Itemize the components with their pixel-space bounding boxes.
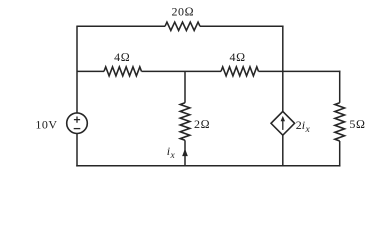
wire bottom (76, 165, 340, 167)
resistor 5ohm (335, 103, 345, 141)
svg-text:10V: 10V (35, 118, 57, 132)
resistor 4ohm right (221, 67, 259, 76)
svg-text:4Ω: 4Ω (114, 50, 130, 64)
voltage source 10V (67, 113, 88, 134)
resistor 20ohm (165, 22, 200, 30)
wire 20ohm to top-right corner (200, 25, 284, 27)
value label 4ohm right (229, 50, 245, 64)
wire 2ohm branch top (184, 71, 186, 102)
wire left rail top (76, 26, 78, 113)
svg-text:5Ω: 5Ω (349, 117, 365, 131)
wire 4ohm left to node at 2ohm branch (142, 70, 222, 72)
value label 2ix (296, 118, 311, 135)
wire 2ohm branch bottom (184, 140, 186, 166)
current arrow ix (182, 149, 188, 157)
wire top-left to 20ohm (77, 25, 165, 27)
wire 5ohm branch bottom (339, 141, 341, 167)
current label ix (167, 144, 176, 161)
dependent current source 2ix (271, 111, 295, 135)
resistor 4ohm left (104, 67, 142, 76)
resistor 2ohm (180, 103, 190, 141)
svg-text:2Ω: 2Ω (194, 117, 210, 131)
value label 20ohm (171, 5, 194, 19)
value label 5ohm (349, 117, 365, 131)
svg-text:2ix: 2ix (296, 118, 311, 135)
value label 10V (35, 118, 57, 132)
wire 5ohm branch top (339, 71, 341, 103)
wire dependent source branch top (282, 71, 284, 111)
svg-text:ix: ix (167, 144, 176, 161)
svg-text:4Ω: 4Ω (229, 50, 245, 64)
value label 2ohm (194, 117, 210, 131)
wire left rail bottom (76, 134, 78, 167)
wire top-right corner down to row2 (282, 26, 284, 72)
value label 4ohm left (114, 50, 130, 64)
svg-text:20Ω: 20Ω (171, 5, 194, 19)
wire row2 left to 4ohm (77, 70, 104, 72)
wire dependent source branch bottom (282, 135, 284, 166)
wire 4ohm right to right corner of row2 (259, 70, 341, 72)
